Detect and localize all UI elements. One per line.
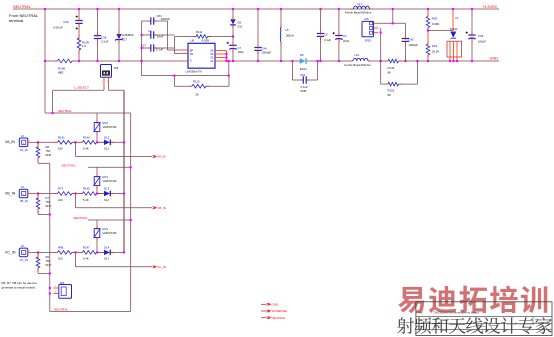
svg-text:D13: D13 xyxy=(104,187,110,191)
svg-text:S1J: S1J xyxy=(104,257,109,261)
svg-text:R73: R73 xyxy=(58,187,64,191)
svg-text:NEUTRAL: NEUTRAL xyxy=(54,308,68,312)
svg-text:R111: R111 xyxy=(196,30,203,34)
svg-text:R141: R141 xyxy=(58,135,65,139)
svg-text:DNP: DNP xyxy=(301,89,307,93)
svg-text:0.05 uF: 0.05 uF xyxy=(53,25,63,29)
svg-text:4.02R: 4.02R xyxy=(202,39,209,43)
svg-text:VARISTOR: VARISTOR xyxy=(103,231,117,235)
svg-text:VB_1S: VB_1S xyxy=(20,199,28,203)
svg-text:R140: R140 xyxy=(83,135,90,139)
svg-text:5.4K: 5.4K xyxy=(83,147,89,151)
svg-text:NEUTRAL: NEUTRAL xyxy=(58,109,72,113)
svg-text:L_SELECT: L_SELECT xyxy=(74,86,89,90)
svg-text:2.2uF: 2.2uF xyxy=(101,40,109,44)
svg-text:NEUTRAL: NEUTRAL xyxy=(13,5,31,9)
svg-text:terminal.: terminal. xyxy=(9,18,24,23)
svg-text:VC_IN: VC_IN xyxy=(5,250,16,254)
svg-text:DNP: DNP xyxy=(46,204,52,208)
svg-text:C39: C39 xyxy=(478,34,484,38)
svg-text:Ferrite Bead 600ohm: Ferrite Bead 600ohm xyxy=(345,11,372,15)
svg-text:100uF: 100uF xyxy=(478,40,486,44)
svg-text:+3.3VDC: +3.3VDC xyxy=(482,5,498,9)
svg-text:5.4K: 5.4K xyxy=(83,257,89,261)
svg-text:C64: C64 xyxy=(300,73,306,77)
svg-text:C6: C6 xyxy=(324,33,328,37)
svg-text:1.5: 1.5 xyxy=(82,44,86,48)
svg-text:R147: R147 xyxy=(83,246,90,250)
svg-text:C4: C4 xyxy=(148,29,152,33)
svg-text:VA_1S: VA_1S xyxy=(20,148,28,152)
svg-text:DNP: DNP xyxy=(46,153,52,157)
svg-text:R145: R145 xyxy=(83,187,90,191)
svg-text:26.5K: 26.5K xyxy=(432,50,439,54)
svg-text:VB_IN: VB_IN xyxy=(5,191,16,195)
svg-text:VARISTOR: VARISTOR xyxy=(103,179,117,183)
svg-text:C2: C2 xyxy=(343,34,347,38)
svg-text:68: 68 xyxy=(388,93,392,97)
svg-text:GND: GND xyxy=(490,57,499,61)
svg-text:LNK306x-TN: LNK306x-TN xyxy=(186,69,202,73)
svg-text:JP6: JP6 xyxy=(60,281,65,285)
svg-text:0.1uF: 0.1uF xyxy=(324,38,331,42)
svg-text:U6: U6 xyxy=(191,39,195,43)
svg-text:5.4K: 5.4K xyxy=(83,198,89,202)
svg-text:R88: R88 xyxy=(58,246,64,250)
svg-text:S1J: S1J xyxy=(104,147,109,151)
svg-text:9.09K: 9.09K xyxy=(432,22,439,26)
svg-text:100: 100 xyxy=(58,257,63,261)
svg-text:DNP: DNP xyxy=(46,263,52,267)
svg-text:R23: R23 xyxy=(432,44,438,48)
svg-text:generate a virtual neutral.: generate a virtual neutral. xyxy=(2,286,36,290)
svg-text:180uH: 180uH xyxy=(286,34,294,38)
svg-text:68E: 68E xyxy=(58,71,63,75)
svg-text:R110: R110 xyxy=(193,80,200,84)
svg-text:TL431: TL431 xyxy=(450,27,458,31)
svg-text:NEUTRAL: NEUTRAL xyxy=(62,164,76,168)
svg-text:ES1J: ES1J xyxy=(300,67,307,71)
svg-text:D12: D12 xyxy=(104,135,110,139)
svg-text:R6, R7, R8 can be used to: R6, R7, R8 can be used to xyxy=(2,281,38,285)
svg-text:Ferrite Bead 600ohm: Ferrite Bead 600ohm xyxy=(345,63,372,67)
svg-text:Document Number: Document Number xyxy=(433,318,450,321)
svg-text:Rev: Rev xyxy=(535,319,539,321)
svg-text:22uF: 22uF xyxy=(343,39,350,43)
svg-text:2K: 2K xyxy=(196,92,200,96)
svg-text:JP8: JP8 xyxy=(114,66,119,70)
svg-text:L6: L6 xyxy=(286,28,290,32)
svg-text:0.1uF: 0.1uF xyxy=(156,48,163,52)
svg-text:S1J: S1J xyxy=(104,198,109,202)
svg-text:100: 100 xyxy=(58,147,63,151)
svg-text:1000pF: 1000pF xyxy=(161,17,171,21)
svg-text:L16: L16 xyxy=(355,53,360,57)
svg-text:VC_1S: VC_1S xyxy=(20,258,28,262)
svg-text:C27: C27 xyxy=(141,43,147,47)
svg-text:100: 100 xyxy=(58,198,63,202)
svg-text:Sheet: Sheet xyxy=(480,325,486,328)
svg-text:C40: C40 xyxy=(63,20,69,24)
svg-text:JP20: JP20 xyxy=(365,38,372,42)
svg-text:D: D xyxy=(190,60,192,63)
svg-text:NEUTRAL: NEUTRAL xyxy=(272,316,286,320)
svg-text:10uF: 10uF xyxy=(157,35,164,39)
svg-text:L17: L17 xyxy=(358,2,363,6)
svg-text:Date:: Date: xyxy=(418,325,423,328)
svg-text:TMS320F6736 Meter Demo Board: TMS320F6736 Meter Demo Board xyxy=(433,311,479,315)
svg-text:VC_IN: VC_IN xyxy=(157,265,166,269)
svg-text:D14: D14 xyxy=(104,246,110,250)
svg-text:FB: FB xyxy=(190,53,194,56)
svg-text:D17: D17 xyxy=(122,37,128,41)
svg-text:VARISTOR: VARISTOR xyxy=(103,125,117,129)
svg-text:10uF: 10uF xyxy=(238,50,245,54)
svg-text:1000pF: 1000pF xyxy=(409,43,419,47)
svg-text:R162: R162 xyxy=(388,89,395,93)
svg-text:C45: C45 xyxy=(409,37,415,41)
svg-text:VINSENSE: VINSENSE xyxy=(272,309,287,313)
svg-text:68: 68 xyxy=(388,71,392,75)
svg-text:VA_IN: VA_IN xyxy=(5,140,16,144)
svg-text:GND: GND xyxy=(272,303,280,307)
svg-text:NEUTRAL: NEUTRAL xyxy=(74,216,88,220)
svg-text:VA_IN: VA_IN xyxy=(157,155,165,159)
svg-text:1000pF: 1000pF xyxy=(262,51,272,55)
svg-text:S1J: S1J xyxy=(238,25,243,29)
svg-text:V1: V1 xyxy=(455,16,459,20)
svg-text:D9: D9 xyxy=(300,53,304,57)
svg-text:J16: J16 xyxy=(364,17,369,21)
svg-text:R149: R149 xyxy=(388,66,395,70)
svg-text:Title: Title xyxy=(418,311,423,314)
svg-text:VB_IN: VB_IN xyxy=(157,206,166,210)
svg-text:R30: R30 xyxy=(432,17,438,21)
